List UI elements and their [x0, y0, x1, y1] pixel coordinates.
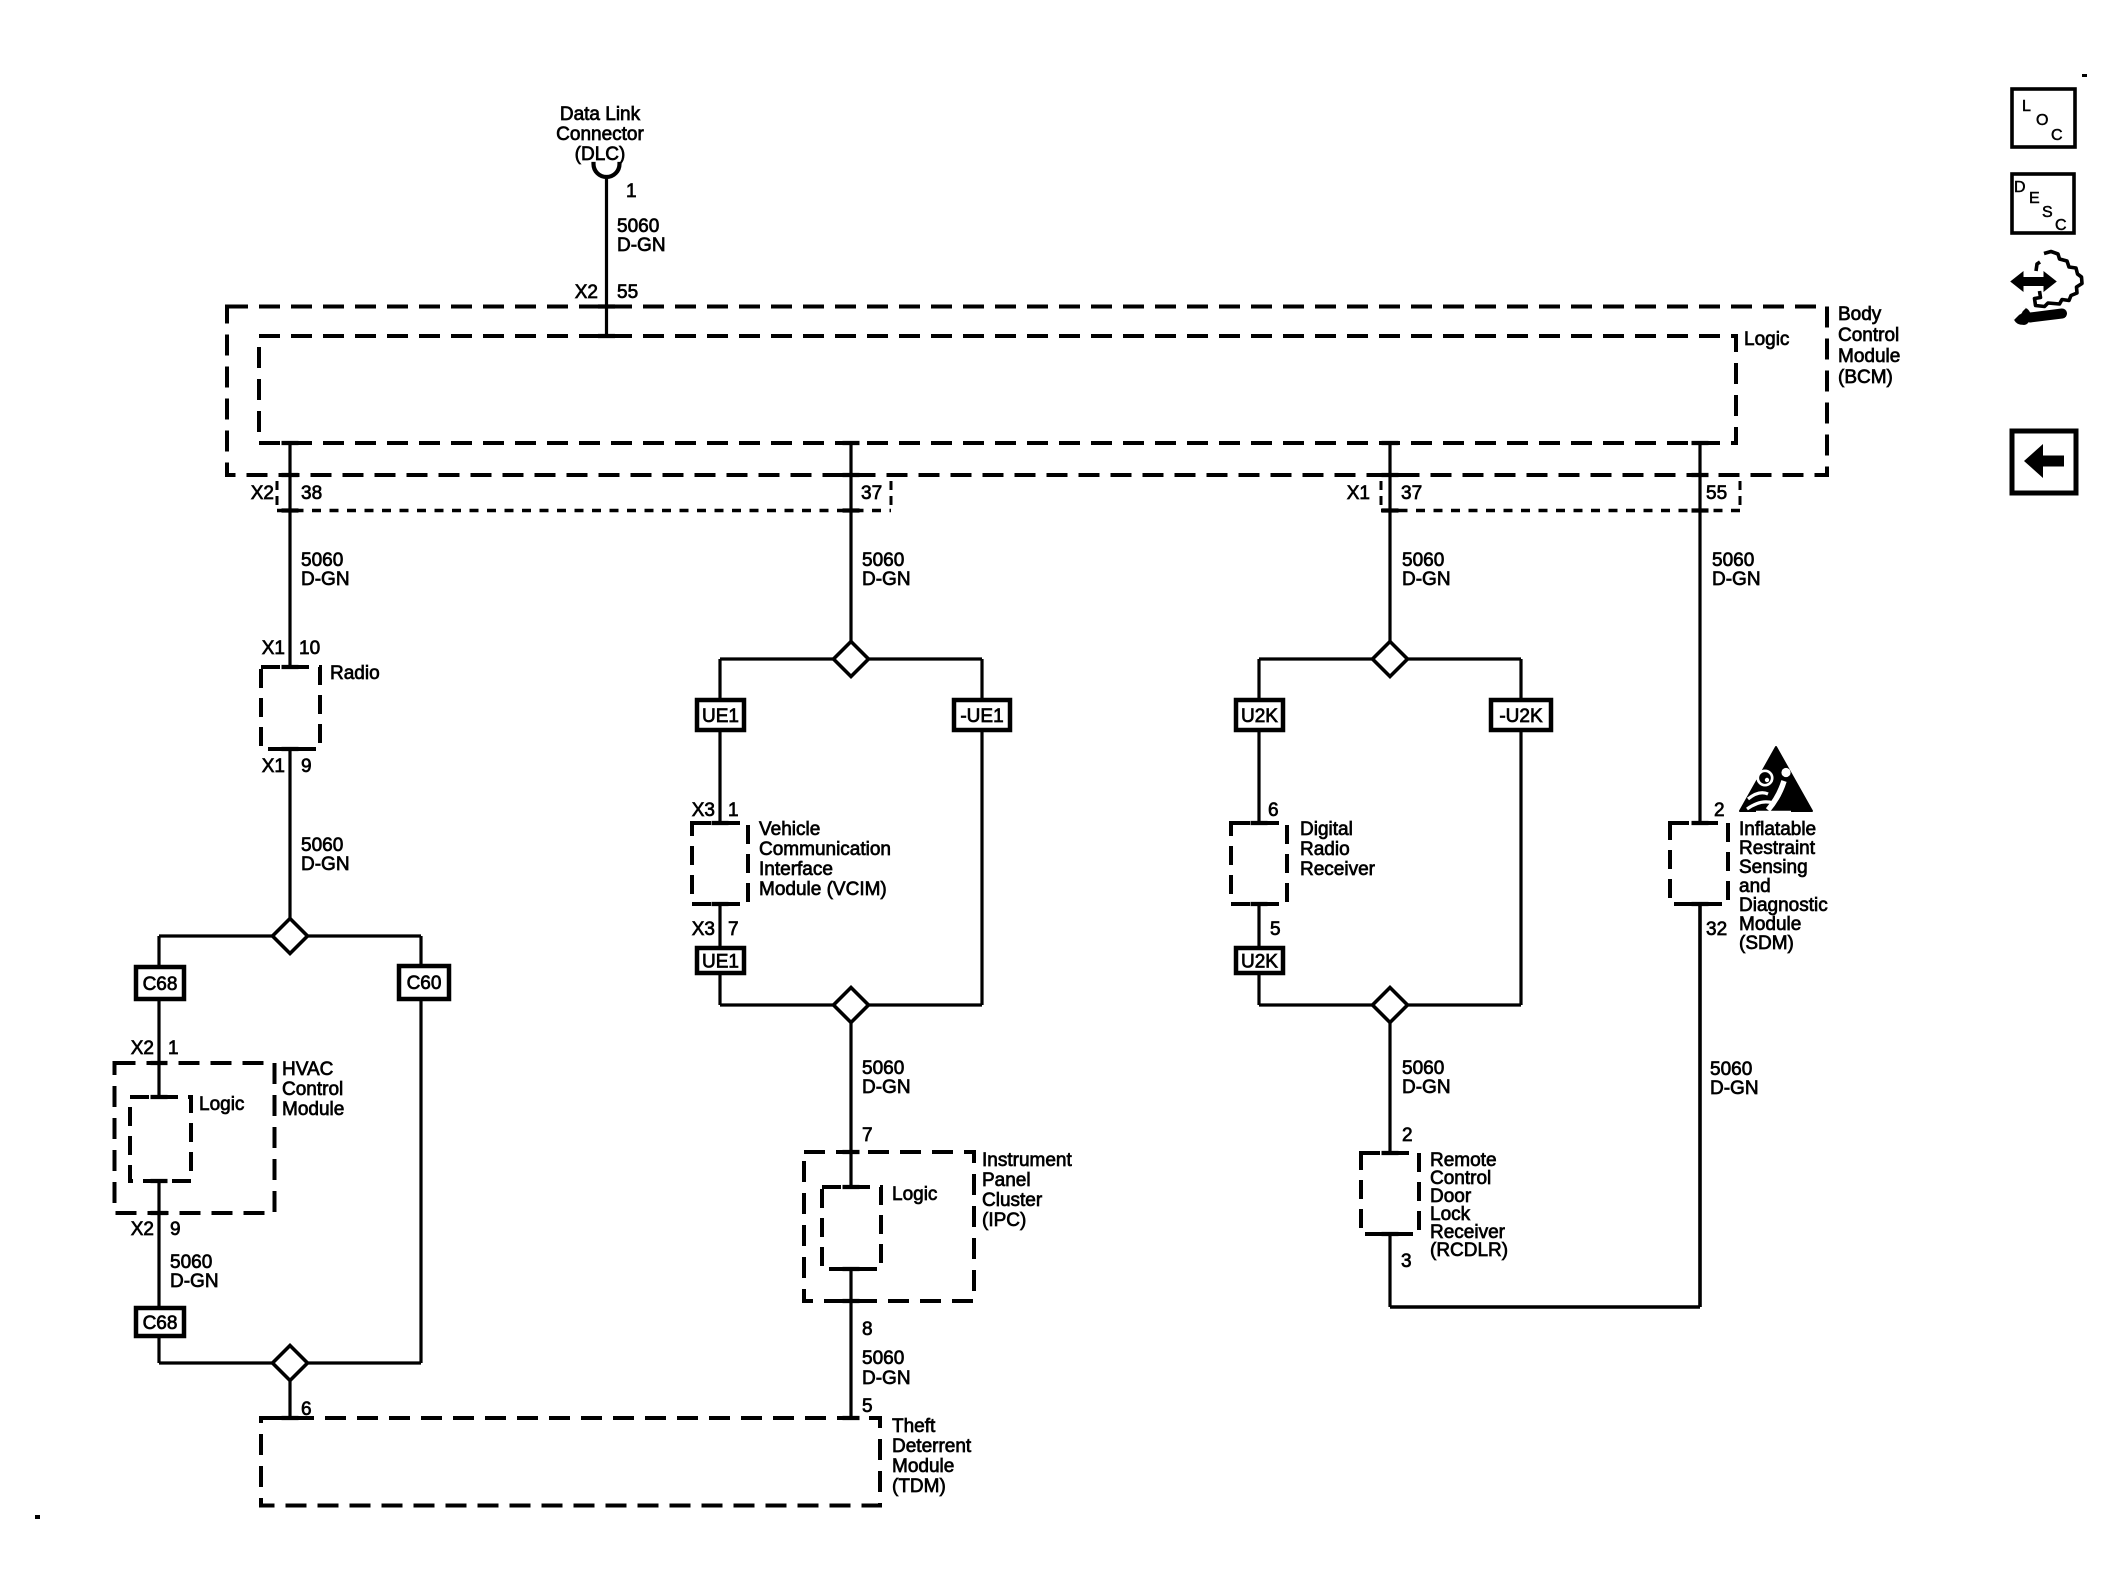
- svg-text:1: 1: [168, 1038, 179, 1059]
- svg-text:C68: C68: [143, 1313, 178, 1334]
- svg-text:X3: X3: [692, 919, 715, 940]
- svg-text:5: 5: [862, 1396, 873, 1417]
- crossbars wires at BCM outer bottom: [282, 473, 299, 477]
- module Digital Radio Receiver dashed box: [1231, 823, 1287, 904]
- svg-text:X2: X2: [575, 282, 598, 303]
- svg-text:5: 5: [1270, 919, 1281, 940]
- svg-text:(IPC): (IPC): [982, 1210, 1026, 1231]
- svg-text:X1: X1: [262, 756, 285, 777]
- connector id dotted line (X2 side): [277, 509, 891, 513]
- wire splice horizontal (lower): [159, 1361, 421, 1364]
- svg-text:(RCDLR): (RCDLR): [1430, 1240, 1508, 1261]
- splice S6 diamond: [1373, 988, 1408, 1023]
- splice S2 diamond: [273, 1346, 308, 1381]
- wire BCM to splice S5: [1388, 443, 1391, 642]
- svg-text:Sensing: Sensing: [1739, 857, 1808, 878]
- svg-text:D-GN: D-GN: [1712, 569, 1761, 590]
- svg-text:(DLC): (DLC): [575, 144, 626, 165]
- svg-text:Logic: Logic: [199, 1094, 244, 1115]
- splice S3 diamond: [834, 642, 869, 677]
- wire UE1 lower to splice S4: [718, 973, 721, 1005]
- svg-text:UE1: UE1: [702, 952, 739, 973]
- svg-text:Receiver: Receiver: [1300, 859, 1376, 880]
- svg-text:8: 8: [862, 1319, 873, 1340]
- svg-text:D-GN: D-GN: [1402, 1077, 1451, 1098]
- wire SDM down to bottom joint: [1698, 904, 1702, 1307]
- svg-text:Interface: Interface: [759, 859, 833, 880]
- svg-text:5060: 5060: [1402, 1058, 1444, 1079]
- connector DLC symbol: [594, 164, 620, 177]
- fuse U2K box (lower): [1236, 948, 1283, 973]
- icon car with double arrow and wrench: [2035, 252, 2083, 307]
- svg-text:Inflatable: Inflatable: [1739, 819, 1816, 840]
- svg-text:5060: 5060: [617, 216, 659, 237]
- svg-text:D-GN: D-GN: [617, 235, 666, 256]
- svg-text:D-GN: D-GN: [301, 854, 350, 875]
- svg-text:Vehicle: Vehicle: [759, 819, 820, 840]
- svg-text:L: L: [2022, 98, 2031, 115]
- crossbar DLC wire at BCM logic top: [598, 334, 615, 338]
- svg-text:-UE1: -UE1: [960, 706, 1003, 727]
- crossbars wires at dotted connector lines: [282, 508, 299, 512]
- svg-text:5060: 5060: [1402, 550, 1444, 571]
- svg-text:Module: Module: [282, 1099, 344, 1120]
- separator tick 37: [890, 481, 893, 505]
- wire bottom horizontal RCDLR to SDM: [1390, 1305, 1700, 1309]
- svg-text:Communication: Communication: [759, 839, 891, 860]
- svg-text:D-GN: D-GN: [862, 1368, 911, 1389]
- svg-text:Logic: Logic: [892, 1184, 937, 1205]
- BCM logic inner dashed box: [259, 336, 1736, 443]
- svg-text:Diagnostic: Diagnostic: [1739, 895, 1828, 916]
- wire -U2K branch down: [1519, 730, 1522, 1005]
- svg-text:10: 10: [299, 638, 320, 659]
- svg-text:Module: Module: [1739, 914, 1801, 935]
- svg-text:D-GN: D-GN: [170, 1271, 219, 1292]
- svg-text:D: D: [2014, 179, 2026, 196]
- svg-text:D-GN: D-GN: [862, 1077, 911, 1098]
- svg-text:(TDM): (TDM): [892, 1476, 946, 1497]
- svg-text:38: 38: [301, 483, 322, 504]
- wire RCDLR down: [1388, 1234, 1391, 1307]
- wire to -UE1: [980, 659, 983, 700]
- svg-text:-U2K: -U2K: [1499, 706, 1543, 727]
- svg-text:Control: Control: [282, 1079, 343, 1100]
- svg-text:E: E: [2029, 190, 2040, 207]
- wire splice horizontal S6: [1259, 1003, 1521, 1006]
- module HVAC outer dashed box: [115, 1063, 275, 1213]
- svg-text:D-GN: D-GN: [301, 569, 350, 590]
- icon back arrow box: [2012, 431, 2076, 493]
- wire DLC pin 1 to BCM: [605, 176, 608, 336]
- svg-text:Data Link: Data Link: [560, 104, 641, 125]
- module VCIM dashed box: [692, 823, 748, 904]
- wire C68 to splice S2: [157, 1336, 160, 1363]
- svg-text:U2K: U2K: [1241, 952, 1278, 973]
- svg-text:Deterrent: Deterrent: [892, 1436, 972, 1457]
- wire to U2K: [1257, 659, 1260, 700]
- svg-text:Theft: Theft: [892, 1416, 936, 1437]
- wire splice S6 to RCDLR: [1388, 1023, 1391, 1153]
- module Radio dashed box: [261, 667, 320, 749]
- icon LOC box: [2012, 89, 2075, 147]
- wire UE1 to VCIM: [718, 730, 721, 823]
- module SDM dashed box: [1670, 823, 1728, 904]
- svg-text:D-GN: D-GN: [1402, 569, 1451, 590]
- svg-text:Logic: Logic: [1744, 329, 1789, 350]
- wire to C60: [419, 936, 422, 966]
- wire to UE1: [718, 659, 721, 700]
- svg-text:(SDM): (SDM): [1739, 933, 1794, 954]
- fuse UE1 box: [697, 700, 744, 730]
- svg-text:X3: X3: [692, 800, 715, 821]
- module TDM dashed box: [261, 1418, 880, 1506]
- fuse -U2K box: [1491, 700, 1551, 730]
- svg-text:C68: C68: [143, 974, 178, 995]
- svg-text:UE1: UE1: [702, 706, 739, 727]
- svg-text:2: 2: [1402, 1125, 1413, 1146]
- module BCM outer dashed box: [227, 307, 1827, 476]
- fuse -UE1 box: [954, 700, 1010, 730]
- wire U2K lower to splice S6: [1257, 973, 1260, 1005]
- svg-text:9: 9: [170, 1219, 181, 1240]
- svg-text:X1: X1: [262, 638, 285, 659]
- svg-text:HVAC: HVAC: [282, 1059, 333, 1080]
- wire BCM to SDM: [1698, 443, 1701, 823]
- connector C60 box: [399, 966, 449, 999]
- separator tick 55: [1739, 481, 1742, 505]
- svg-text:32: 32: [1706, 919, 1727, 940]
- svg-text:D-GN: D-GN: [1710, 1078, 1759, 1099]
- svg-text:5060: 5060: [862, 1348, 904, 1369]
- wire splice horizontal S5: [1259, 657, 1521, 660]
- wire IPC to TDM: [849, 1269, 852, 1418]
- svg-text:5060: 5060: [301, 550, 343, 571]
- svg-text:Radio: Radio: [1300, 839, 1350, 860]
- crossbar DLC wire at BCM outer top: [598, 304, 615, 308]
- svg-text:X1: X1: [1347, 483, 1370, 504]
- wire splice S4 to IPC: [849, 1023, 852, 1187]
- connector C68 box (lower): [136, 1308, 184, 1336]
- svg-text:(BCM): (BCM): [1838, 367, 1893, 388]
- svg-text:Control: Control: [1838, 325, 1899, 346]
- speck top right: [2082, 74, 2087, 77]
- svg-text:Body: Body: [1838, 304, 1882, 325]
- svg-text:5060: 5060: [862, 1058, 904, 1079]
- svg-text:Module (VCIM): Module (VCIM): [759, 879, 887, 900]
- svg-text:37: 37: [1401, 483, 1422, 504]
- svg-text:5060: 5060: [862, 550, 904, 571]
- svg-text:X2: X2: [251, 483, 274, 504]
- svg-text:9: 9: [301, 756, 312, 777]
- svg-text:37: 37: [861, 483, 882, 504]
- svg-text:2: 2: [1714, 800, 1725, 821]
- crossbars wires at BCM logic bottom: [282, 441, 299, 445]
- fuse U2K box: [1236, 700, 1283, 730]
- connector C68 box: [136, 967, 184, 999]
- wire DRR to U2K lower: [1257, 904, 1260, 948]
- svg-text:Restraint: Restraint: [1739, 838, 1816, 859]
- svg-text:Panel: Panel: [982, 1170, 1031, 1191]
- fuse UE1 box (lower): [697, 948, 744, 973]
- splice S5 diamond: [1373, 642, 1408, 677]
- wire -UE1 branch down: [980, 730, 983, 1005]
- wire HVAC logic to C68: [157, 1181, 160, 1308]
- HVAC logic inner dashed box: [130, 1097, 191, 1181]
- svg-text:1: 1: [728, 800, 739, 821]
- svg-text:55: 55: [1706, 483, 1727, 504]
- svg-text:Instrument: Instrument: [982, 1150, 1072, 1171]
- wire to C68: [157, 936, 160, 967]
- svg-text:O: O: [2036, 112, 2048, 129]
- wire splice horizontal S3: [720, 657, 982, 660]
- splice S1 diamond: [273, 919, 308, 954]
- module IPC outer dashed box: [804, 1152, 974, 1301]
- svg-text:C: C: [2051, 127, 2063, 144]
- wire U2K to Digital Radio Receiver: [1257, 730, 1260, 823]
- svg-text:Cluster: Cluster: [982, 1190, 1043, 1211]
- svg-text:5060: 5060: [301, 835, 343, 856]
- wire C68 to HVAC: [157, 999, 160, 1097]
- svg-text:Digital: Digital: [1300, 819, 1353, 840]
- svg-text:7: 7: [862, 1125, 873, 1146]
- wire C60 branch down: [419, 999, 422, 1363]
- svg-text:Connector: Connector: [556, 124, 644, 145]
- wire VCIM to UE1 lower: [718, 904, 721, 948]
- separator tick X1: [1380, 481, 1383, 505]
- wire splice horizontal S4: [720, 1003, 982, 1006]
- wire splice horizontal: [159, 934, 421, 937]
- svg-text:6: 6: [1268, 800, 1279, 821]
- separator tick X2: [276, 481, 279, 505]
- svg-text:X2: X2: [131, 1219, 154, 1240]
- svg-text:U2K: U2K: [1241, 706, 1278, 727]
- svg-text:D-GN: D-GN: [862, 569, 911, 590]
- svg-text:C: C: [2055, 217, 2067, 234]
- wire Radio to splice S1: [288, 749, 291, 920]
- svg-text:5060: 5060: [1710, 1059, 1752, 1080]
- svg-text:3: 3: [1401, 1251, 1412, 1272]
- wire BCM to splice S3: [849, 443, 852, 642]
- svg-text:7: 7: [728, 919, 739, 940]
- IPC logic inner dashed box: [822, 1187, 881, 1269]
- svg-text:Radio: Radio: [330, 663, 380, 684]
- warning triangle SRS icon: [1740, 747, 1812, 812]
- svg-text:5060: 5060: [1712, 550, 1754, 571]
- svg-text:C60: C60: [407, 973, 442, 994]
- svg-text:X2: X2: [131, 1038, 154, 1059]
- svg-text:S: S: [2042, 204, 2053, 221]
- module RCDLR dashed box: [1361, 1153, 1419, 1234]
- svg-text:Module: Module: [1838, 346, 1900, 367]
- wire to -U2K: [1519, 659, 1522, 700]
- speck bottom left: [35, 1515, 40, 1519]
- connector id dotted line (X1 side): [1381, 509, 1740, 513]
- svg-text:and: and: [1739, 876, 1771, 897]
- svg-text:5060: 5060: [170, 1252, 212, 1273]
- svg-text:1: 1: [626, 181, 637, 202]
- wire BCM to Radio: [288, 443, 291, 667]
- icon DESC box: [2012, 174, 2074, 233]
- svg-text:Module: Module: [892, 1456, 954, 1477]
- svg-text:55: 55: [617, 282, 638, 303]
- wire splice S2 to TDM: [288, 1381, 291, 1418]
- splice S4 diamond: [834, 988, 869, 1023]
